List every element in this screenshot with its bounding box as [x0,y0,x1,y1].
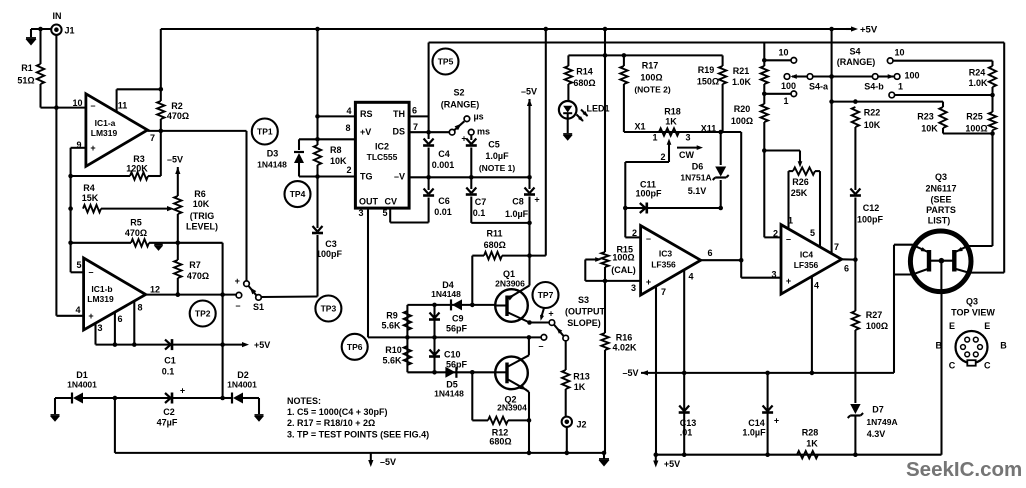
svg-text:+5V: +5V [860,24,878,35]
svg-text:C10: C10 [444,350,461,360]
svg-text:CV: CV [384,197,397,207]
svg-text:D3: D3 [267,149,279,159]
svg-text:C: C [984,360,991,370]
svg-text:2: 2 [346,165,351,175]
svg-text:R24: R24 [969,68,986,78]
svg-text:3: 3 [631,283,636,293]
svg-text:R13: R13 [573,371,590,381]
svg-text:47µF: 47µF [157,418,178,428]
svg-text:R10: R10 [385,345,402,355]
svg-text:RS: RS [360,109,373,119]
svg-text:5.6K: 5.6K [382,355,402,365]
svg-text:TLC555: TLC555 [367,152,398,162]
svg-text:X1: X1 [634,121,645,131]
svg-text:R11: R11 [486,228,502,238]
svg-text:1.0µF: 1.0µF [485,151,509,161]
svg-text:R7: R7 [189,260,201,270]
svg-text:470Ω: 470Ω [167,111,189,121]
svg-text:4: 4 [814,280,819,290]
svg-text:(RANGE): (RANGE) [837,57,876,67]
svg-text:C7: C7 [475,197,487,207]
svg-text:TP7: TP7 [538,290,554,300]
svg-text:680Ω: 680Ω [484,240,506,250]
svg-text:CW: CW [679,150,694,160]
svg-text:120K: 120K [126,164,148,174]
svg-text:Q3: Q3 [935,172,947,182]
svg-text:1N4148: 1N4148 [431,289,461,299]
svg-text:C13: C13 [680,418,697,428]
svg-text:LM319: LM319 [87,294,114,304]
svg-text:SLOPE): SLOPE) [567,318,601,328]
svg-text:S4: S4 [849,47,860,57]
svg-text:2: 2 [632,228,637,238]
svg-text:R14: R14 [576,67,593,77]
svg-text:10: 10 [72,98,82,108]
svg-text:R1: R1 [21,63,33,73]
svg-text:(CAL): (CAL) [611,265,636,275]
svg-text:–V: –V [394,172,405,182]
svg-text:–: – [786,234,791,244]
svg-text:1N4148: 1N4148 [257,160,287,170]
svg-text:R16: R16 [616,333,633,343]
svg-text:R19: R19 [698,65,715,75]
svg-text:100Ω: 100Ω [965,124,987,134]
svg-text:1.0µF: 1.0µF [505,209,529,219]
svg-text:3: 3 [97,323,102,333]
svg-text:12: 12 [150,285,160,295]
svg-text:0.001: 0.001 [432,160,455,170]
svg-text:OUT: OUT [359,197,379,207]
svg-text:TP4: TP4 [290,189,306,199]
svg-text:2. R17 = R18/10 + 2Ω: 2. R17 = R18/10 + 2Ω [287,418,375,428]
svg-text:2N6117: 2N6117 [925,184,956,194]
svg-text:S4-b: S4-b [864,82,884,92]
svg-text:1K: 1K [665,117,677,127]
svg-text:B: B [935,341,942,351]
svg-text:D7: D7 [872,405,884,415]
svg-text:X11: X11 [701,123,717,133]
svg-text:11: 11 [118,101,128,111]
svg-text:7: 7 [834,242,839,252]
svg-text:TOP VIEW: TOP VIEW [951,308,995,318]
svg-text:S1: S1 [253,302,264,312]
svg-text:SeekIC.com: SeekIC.com [906,458,1022,481]
svg-text:3: 3 [771,270,776,280]
svg-text:TH: TH [393,109,405,119]
svg-text:15K: 15K [82,193,99,203]
svg-text:R9: R9 [386,310,398,320]
svg-text:–: – [88,267,93,277]
svg-text:100pF: 100pF [635,189,662,199]
svg-text:1: 1 [898,82,903,92]
svg-text:25K: 25K [791,188,808,198]
svg-text:TP1: TP1 [257,127,273,137]
svg-text:6: 6 [117,314,122,324]
svg-text:1.0K: 1.0K [968,78,988,88]
svg-text:+: + [786,276,791,286]
svg-text:LIST): LIST) [928,216,951,226]
svg-text:R20: R20 [734,104,751,114]
svg-text:–: – [646,234,651,244]
svg-text:J1: J1 [64,26,74,36]
svg-text:5: 5 [76,260,81,270]
svg-text:+: + [548,309,553,319]
svg-text:4: 4 [346,106,351,116]
svg-text:1.0µF: 1.0µF [742,428,766,438]
svg-text:R2: R2 [171,101,183,111]
svg-text:IC1-b: IC1-b [91,284,112,294]
svg-text:NOTES:: NOTES: [287,396,321,406]
svg-text:R21: R21 [733,66,750,76]
svg-text:56pF: 56pF [446,324,468,334]
svg-text:–: – [235,301,240,311]
svg-text:S4-a: S4-a [809,82,829,92]
svg-text:–5V: –5V [380,457,396,467]
svg-text:(NOTE 2): (NOTE 2) [634,84,671,94]
svg-text:100: 100 [904,70,919,80]
svg-text:R3: R3 [133,154,145,164]
svg-text:LED1: LED1 [586,104,609,114]
svg-text:R8: R8 [330,145,342,155]
svg-text:R17: R17 [642,61,659,71]
svg-text:10: 10 [778,48,788,58]
svg-text:E: E [984,321,990,331]
svg-text:5.1V: 5.1V [688,186,707,196]
svg-text:100pF: 100pF [316,249,343,259]
svg-text:+: + [180,386,185,396]
svg-text:150Ω: 150Ω [697,77,719,87]
svg-text:IN: IN [53,11,62,21]
svg-text:TP2: TP2 [195,309,211,319]
svg-text:(NOTE 1): (NOTE 1) [479,163,516,173]
svg-text:C: C [949,360,956,370]
svg-text:E: E [949,321,955,331]
svg-text:–: – [90,101,95,111]
svg-text:–: – [538,341,543,351]
svg-text:8: 8 [345,123,350,133]
svg-text:R6: R6 [194,189,206,199]
svg-text:7: 7 [413,122,418,132]
svg-text:S2: S2 [453,88,464,98]
svg-text:+: + [534,195,539,205]
svg-text:–5V: –5V [521,87,537,97]
svg-text:2N3906: 2N3906 [495,279,525,289]
svg-text:1K: 1K [806,439,818,449]
svg-text:+: + [235,276,240,286]
svg-text:Q1: Q1 [503,269,515,279]
svg-text:1K: 1K [574,382,586,392]
svg-text:IC4: IC4 [800,250,814,260]
svg-text:6: 6 [844,264,849,274]
svg-text:R18: R18 [664,107,681,117]
svg-text:4.3V: 4.3V [867,429,886,439]
svg-text:680Ω: 680Ω [573,78,595,88]
svg-text:R27: R27 [866,310,883,320]
svg-text:+: + [88,311,93,321]
svg-text:+: + [461,134,466,144]
svg-text:LM319: LM319 [91,128,118,138]
svg-text:8: 8 [137,303,142,313]
svg-text:ms: ms [477,127,490,137]
svg-text:.01: .01 [680,428,693,438]
svg-text:DS: DS [392,127,405,137]
svg-text:LF356: LF356 [651,260,676,270]
svg-text:R22: R22 [864,107,881,117]
svg-text:7: 7 [150,133,155,143]
svg-text:6: 6 [707,248,712,258]
svg-text:100Ω: 100Ω [612,253,634,263]
svg-text:1N751A: 1N751A [680,173,711,183]
svg-text:1N749A: 1N749A [866,417,897,427]
svg-text:3: 3 [358,208,363,218]
svg-text:IC3: IC3 [659,249,673,259]
svg-text:R25: R25 [966,111,983,121]
svg-text:C9: C9 [452,313,464,323]
svg-text:+5V: +5V [664,459,680,469]
svg-text:TP3: TP3 [321,304,337,314]
svg-text:R26: R26 [792,177,809,187]
svg-text:+: + [646,277,651,287]
svg-text:5.6K: 5.6K [381,321,401,331]
svg-text:10K: 10K [330,156,347,166]
svg-text:1.0K: 1.0K [732,77,752,87]
svg-text:D6: D6 [692,162,704,172]
svg-text:C8: C8 [512,197,524,207]
svg-text:PARTS: PARTS [926,205,956,215]
svg-text:100Ω: 100Ω [640,73,662,83]
svg-text:(RANGE): (RANGE) [441,100,480,110]
svg-text:0.01: 0.01 [434,207,452,217]
svg-text:C5: C5 [488,140,500,150]
svg-text:0.1: 0.1 [473,208,486,218]
svg-text:C12: C12 [863,203,880,213]
svg-text:3: 3 [685,132,690,142]
svg-text:10K: 10K [864,120,881,130]
svg-text:10K: 10K [193,199,210,209]
svg-text:0.1: 0.1 [162,367,175,377]
svg-text:470Ω: 470Ω [125,228,147,238]
svg-text:10: 10 [894,47,904,57]
svg-text:100Ω: 100Ω [866,321,888,331]
svg-text:(OUTPUT: (OUTPUT [565,307,605,317]
svg-text:R5: R5 [130,218,142,228]
svg-text:+V: +V [360,127,371,137]
svg-text:S3: S3 [578,295,589,305]
svg-text:100pF: 100pF [857,215,884,225]
svg-text:100: 100 [781,81,796,91]
svg-text:C14: C14 [748,418,765,428]
svg-text:4: 4 [75,305,80,315]
svg-text:5: 5 [810,228,815,238]
svg-text:–5V: –5V [167,155,183,165]
svg-text:R28: R28 [802,428,819,438]
svg-text:100Ω: 100Ω [731,116,753,126]
svg-text:Q3: Q3 [966,297,978,307]
svg-text:7: 7 [661,287,666,297]
svg-text:2: 2 [773,229,778,239]
svg-text:IC1-a: IC1-a [95,118,116,128]
svg-text:1N4001: 1N4001 [67,380,97,390]
svg-text:TP5: TP5 [438,57,454,67]
svg-text:470Ω: 470Ω [187,271,209,281]
svg-text:(TRIG: (TRIG [190,211,215,221]
svg-text:1: 1 [652,132,657,142]
svg-text:3. TP = TEST POINTS (SEE FIG.: 3. TP = TEST POINTS (SEE FIG.4) [287,430,429,440]
svg-text:4: 4 [688,272,693,282]
svg-text:TG: TG [360,172,373,182]
svg-text:+: + [774,416,779,426]
svg-text:C3: C3 [325,239,337,249]
svg-text:C4: C4 [438,149,450,159]
svg-text:680Ω: 680Ω [489,437,511,447]
svg-text:R4: R4 [83,183,95,193]
svg-text:B: B [1000,341,1007,351]
svg-text:LEVEL): LEVEL) [186,222,218,232]
svg-text:LF356: LF356 [794,260,819,270]
svg-text:10K: 10K [921,124,938,134]
svg-text:4.02K: 4.02K [612,343,637,353]
svg-text:5: 5 [382,208,387,218]
svg-text:C1: C1 [164,356,176,366]
svg-text:1: 1 [783,96,788,106]
svg-text:R23: R23 [917,111,934,121]
svg-text:C6: C6 [438,196,450,206]
svg-text:C2: C2 [163,407,175,417]
svg-text:J2: J2 [576,420,586,430]
svg-text:–5V: –5V [622,368,638,378]
svg-text:+: + [90,143,95,153]
svg-text:1N4001: 1N4001 [227,380,257,390]
svg-text:2N3904: 2N3904 [497,403,527,413]
svg-text:51Ω: 51Ω [17,76,34,86]
svg-text:IC2: IC2 [375,142,389,152]
svg-text:(SEE: (SEE [930,195,951,205]
svg-text:2: 2 [660,152,665,162]
svg-text:+5V: +5V [254,340,270,350]
svg-text:1. C5 = 1000(C4 + 30pF): 1. C5 = 1000(C4 + 30pF) [287,407,388,417]
svg-text:6: 6 [412,106,417,116]
svg-text:µs: µs [474,112,484,122]
svg-text:TP6: TP6 [347,342,363,352]
svg-text:1N4148: 1N4148 [434,389,464,399]
